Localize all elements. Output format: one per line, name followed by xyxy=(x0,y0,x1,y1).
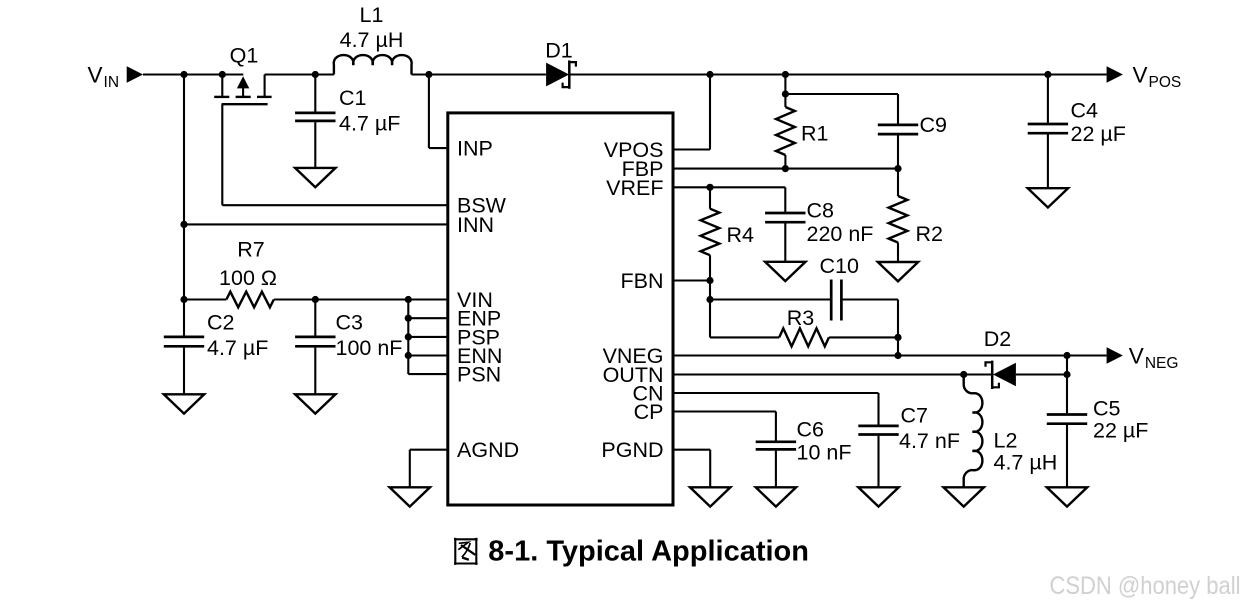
resistor R7 xyxy=(184,292,274,308)
node R1 bottom junction xyxy=(782,165,789,172)
node Q1 source junction xyxy=(219,71,226,78)
svg-text:100 nF: 100 nF xyxy=(336,336,403,360)
node C4 top junction xyxy=(1044,71,1051,78)
svg-text:CSDN @honey ball: CSDN @honey ball xyxy=(1050,572,1241,600)
wire xyxy=(785,93,898,95)
node PSP junction xyxy=(405,333,412,340)
wire xyxy=(675,410,776,412)
node ENP junction xyxy=(405,315,412,322)
wire xyxy=(143,73,243,75)
wire xyxy=(429,147,447,149)
input port VIN arrow xyxy=(127,66,143,83)
ground xyxy=(1047,487,1087,506)
wire xyxy=(675,392,879,394)
wire xyxy=(274,298,447,300)
ground xyxy=(756,487,796,506)
node D2 C5 junction xyxy=(1063,371,1070,378)
capacitor C1 xyxy=(295,75,335,168)
diode D2 xyxy=(986,361,1016,389)
capacitor C3 xyxy=(295,300,335,395)
svg-text:R2: R2 xyxy=(916,222,943,246)
wire xyxy=(407,300,409,375)
op-amp U1 IC body xyxy=(448,113,673,505)
svg-text:R3: R3 xyxy=(787,306,815,330)
wire xyxy=(675,148,711,150)
output port VNEG arrow xyxy=(1107,347,1123,364)
svg-text:CP: CP xyxy=(634,400,664,424)
node R4 top junction xyxy=(706,184,713,191)
svg-text:4.7 µF: 4.7 µF xyxy=(339,112,400,136)
svg-text:R1: R1 xyxy=(801,121,828,145)
wire xyxy=(675,354,1107,356)
node VNEG branch junction xyxy=(894,352,901,359)
wire xyxy=(675,449,711,451)
node R1 top junction xyxy=(782,71,789,78)
wire xyxy=(675,168,899,170)
wire xyxy=(409,450,411,488)
node VNEG output junction xyxy=(1063,352,1070,359)
svg-text:C1: C1 xyxy=(339,86,366,110)
wire xyxy=(184,223,447,225)
svg-text:C8: C8 xyxy=(807,199,835,223)
svg-text:C5: C5 xyxy=(1093,396,1121,420)
wire xyxy=(570,73,1106,75)
node R7 left junction xyxy=(180,296,187,303)
wire xyxy=(408,373,446,375)
svg-text:FBN: FBN xyxy=(621,269,664,293)
svg-text:4.7 µF: 4.7 µF xyxy=(207,336,268,360)
ground xyxy=(878,262,918,281)
capacitor C10 xyxy=(831,280,841,321)
svg-text:4.7 µH: 4.7 µH xyxy=(994,450,1058,474)
svg-text:C6: C6 xyxy=(797,418,825,442)
ground xyxy=(690,487,730,506)
svg-text:C9: C9 xyxy=(920,113,947,137)
node ENN junction xyxy=(405,352,412,359)
node switch node xyxy=(312,71,319,78)
svg-text:4.7 µH: 4.7 µH xyxy=(340,28,404,52)
svg-text:R4: R4 xyxy=(727,223,755,247)
output port VPOS arrow xyxy=(1107,66,1123,83)
node L2 top junction xyxy=(960,371,967,378)
transistor Q1 xyxy=(214,75,271,105)
resistor R3 xyxy=(710,328,898,346)
ground xyxy=(858,487,898,506)
wire xyxy=(710,298,831,300)
svg-text:C10: C10 xyxy=(820,254,859,278)
node VPOS rail junction xyxy=(706,71,713,78)
ground xyxy=(295,168,335,187)
capacitor C8 xyxy=(765,187,805,261)
wire xyxy=(842,298,898,300)
wire xyxy=(1016,373,1067,375)
ground xyxy=(390,487,430,506)
wire xyxy=(222,204,446,206)
capacitor C7 xyxy=(858,393,898,487)
wire xyxy=(709,281,711,338)
svg-text:8-1. Typical Application: 8-1. Typical Application xyxy=(488,535,809,567)
caption CJK character tu xyxy=(454,538,478,565)
svg-text:100 Ω: 100 Ω xyxy=(219,266,277,290)
wire xyxy=(709,450,711,488)
node R4 bottom junction xyxy=(706,277,713,284)
node INN junction xyxy=(180,221,187,228)
svg-text:4.7 nF: 4.7 nF xyxy=(899,429,960,453)
node C3 top junction xyxy=(312,296,319,303)
node VIN pin junction xyxy=(405,296,412,303)
node FBN branch junction xyxy=(706,296,713,303)
diode D1 xyxy=(546,60,576,88)
wire xyxy=(412,73,546,75)
resistor R1 xyxy=(776,94,795,169)
inductor L1 xyxy=(334,55,412,74)
wire xyxy=(897,300,899,356)
svg-text:VREF: VREF xyxy=(606,176,663,200)
resistor R4 xyxy=(701,187,720,280)
ground xyxy=(295,394,335,413)
ground xyxy=(765,262,805,281)
wire xyxy=(675,373,992,375)
node R3 C10 junction xyxy=(894,334,901,341)
svg-text:220 nF: 220 nF xyxy=(807,222,874,246)
wire xyxy=(408,317,446,319)
svg-text:PGND: PGND xyxy=(601,438,663,462)
wire xyxy=(410,449,447,451)
resistor R2 xyxy=(889,169,908,262)
svg-text:L1: L1 xyxy=(360,3,384,27)
capacitor C4 xyxy=(1028,75,1068,189)
svg-text:C4: C4 xyxy=(1071,99,1099,123)
wire xyxy=(1066,356,1068,375)
svg-text:PSN: PSN xyxy=(457,363,501,387)
capacitor C9 xyxy=(878,94,918,169)
svg-text:22 µF: 22 µF xyxy=(1093,418,1148,442)
ground xyxy=(1028,188,1068,207)
svg-text:INN: INN xyxy=(457,213,494,237)
inductor L2 xyxy=(964,375,983,488)
ground xyxy=(944,487,984,506)
svg-text:R7: R7 xyxy=(237,237,264,261)
svg-text:L2: L2 xyxy=(994,428,1018,452)
wire xyxy=(784,75,786,95)
svg-text:10 nF: 10 nF xyxy=(797,441,852,465)
svg-text:AGND: AGND xyxy=(457,438,519,462)
node R1 C9 junction xyxy=(782,90,789,97)
svg-text:INP: INP xyxy=(457,137,493,161)
ground xyxy=(164,394,204,413)
capacitor C2 xyxy=(164,300,204,395)
svg-text:C3: C3 xyxy=(336,311,364,335)
node L1 output junction xyxy=(425,71,432,78)
wire xyxy=(428,75,430,149)
svg-text:C7: C7 xyxy=(901,404,928,428)
wire xyxy=(221,104,223,205)
capacitor C5 xyxy=(1047,375,1087,488)
svg-text:D1: D1 xyxy=(545,39,572,63)
svg-text:Q1: Q1 xyxy=(230,44,259,68)
wire xyxy=(675,279,711,281)
wire xyxy=(408,354,446,356)
svg-text:D2: D2 xyxy=(984,327,1011,351)
svg-text:22 µF: 22 µF xyxy=(1071,122,1126,146)
wire xyxy=(675,186,786,188)
svg-text:C2: C2 xyxy=(207,311,234,335)
node VIN rail junction xyxy=(180,71,187,78)
wire xyxy=(709,75,711,150)
wire xyxy=(408,336,446,338)
wire xyxy=(183,75,185,300)
capacitor C6 xyxy=(756,412,796,488)
node C9 bottom junction xyxy=(894,165,901,172)
wire xyxy=(265,73,334,75)
